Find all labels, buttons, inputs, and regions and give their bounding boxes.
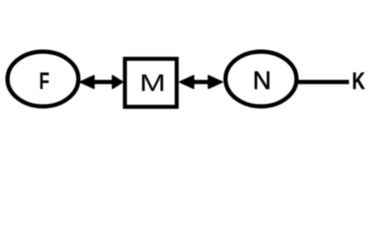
svg-text:N: N	[253, 67, 271, 94]
svg-text:M: M	[140, 70, 166, 97]
svg-text:F: F	[39, 68, 49, 95]
svg-text:K: K	[352, 67, 365, 94]
